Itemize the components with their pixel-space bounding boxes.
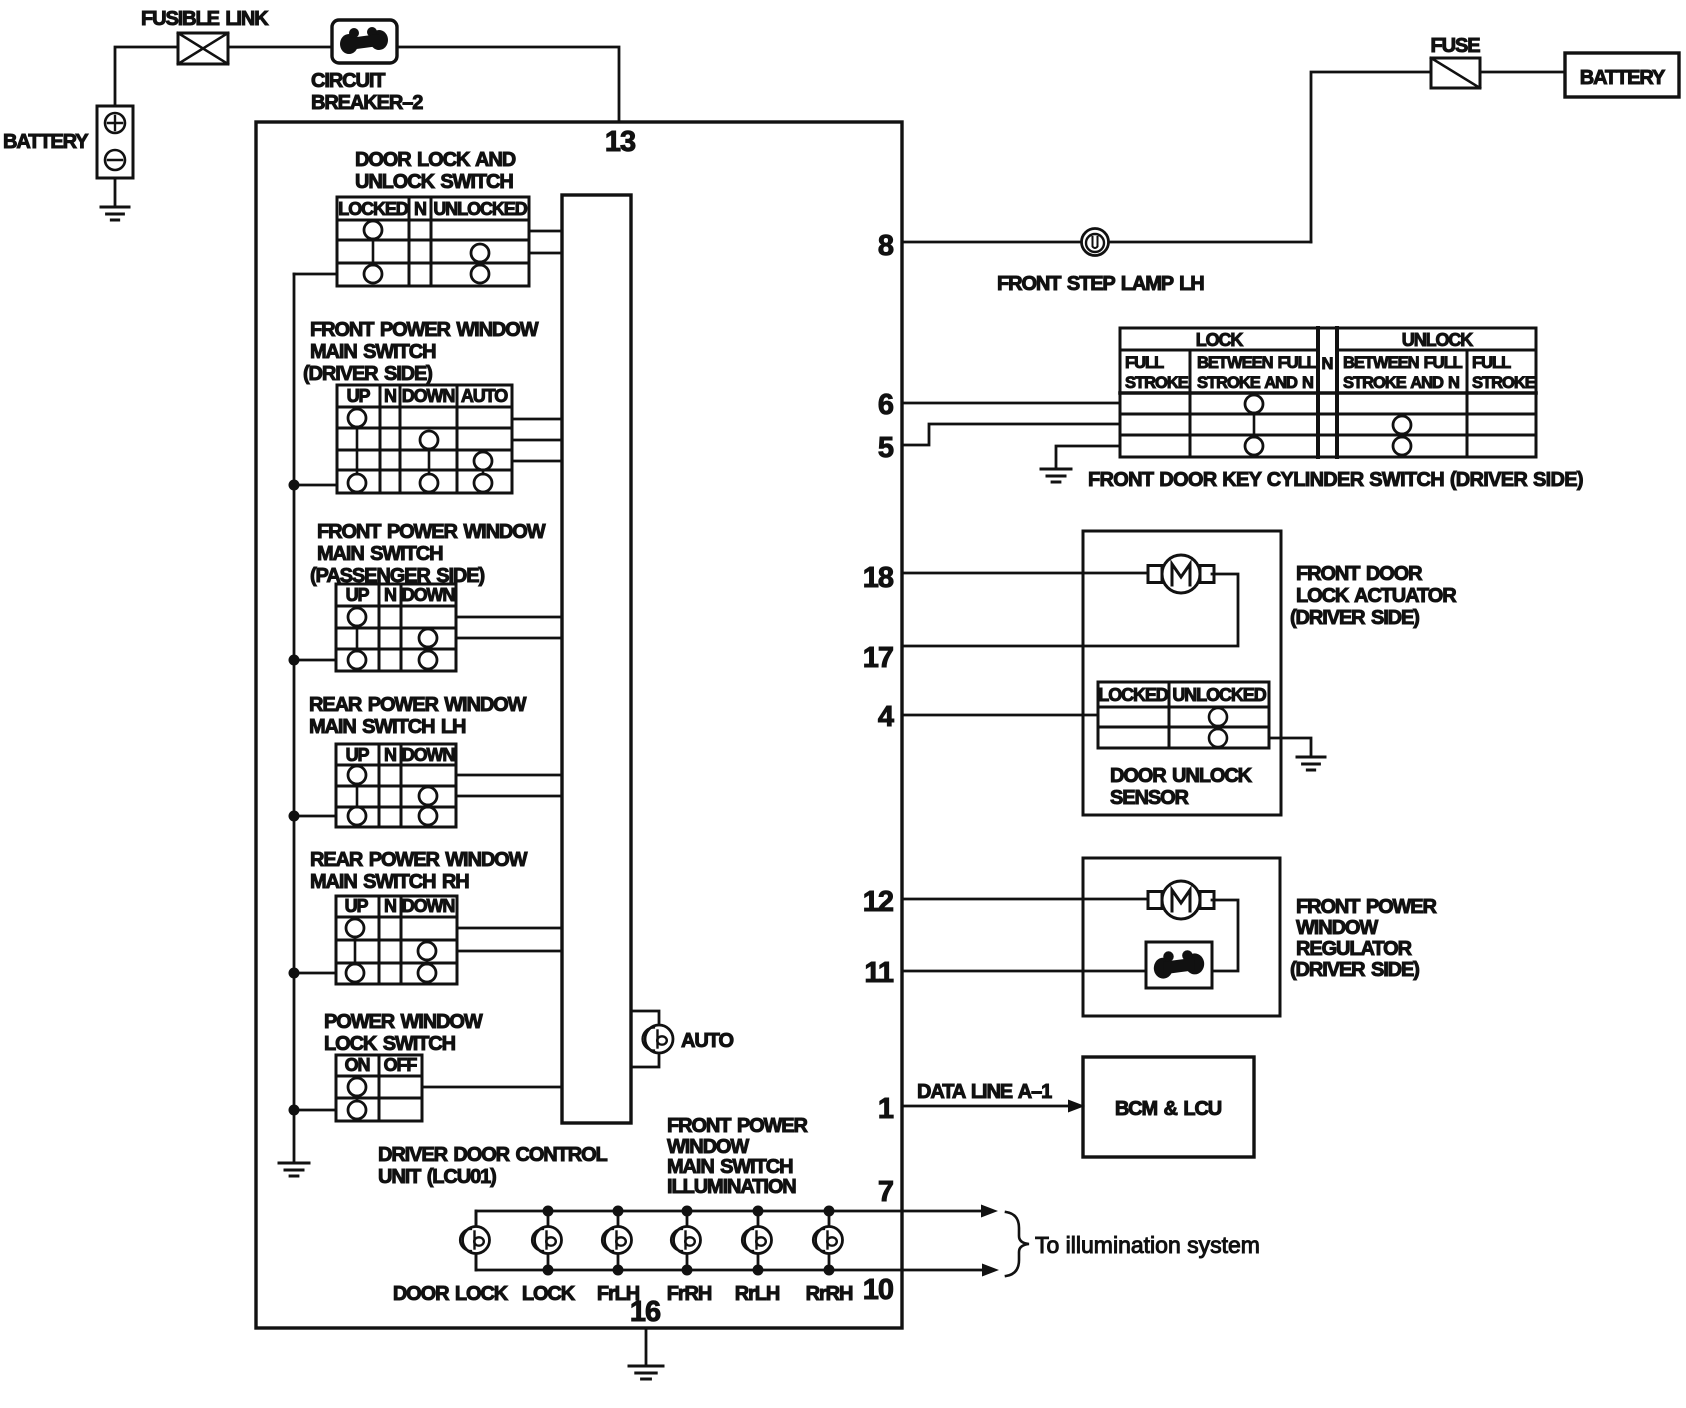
svg-text:12: 12 — [863, 886, 893, 918]
wire S1 row1 to bus — [529, 230, 562, 233]
wire actuator motor to pin 17 — [902, 574, 1238, 646]
svg-text:7: 7 — [878, 1176, 893, 1208]
svg-text:REAR POWER WINDOW: REAR POWER WINDOW — [310, 849, 528, 871]
ground (door unlock sensor) — [1297, 756, 1325, 759]
wire door unlock sensor to ground — [1269, 738, 1311, 756]
svg-text:LOCK ACTUATOR: LOCK ACTUATOR — [1296, 585, 1457, 607]
svg-text:FRONT STEP LAMP LH: FRONT STEP LAMP LH — [997, 273, 1204, 295]
svg-text:FULL: FULL — [1125, 354, 1164, 372]
wire pin 5 to key cylinder switch — [902, 424, 1120, 445]
svg-text:UNLOCKED: UNLOCKED — [433, 199, 527, 219]
arrow to illumination system (bottom) — [982, 1264, 999, 1277]
svg-text:(DRIVER SIDE): (DRIVER SIDE) — [1290, 959, 1419, 981]
svg-text:UNIT (LCU01): UNIT (LCU01) — [378, 1166, 496, 1188]
svg-text:STROKE AND N: STROKE AND N — [1197, 374, 1313, 392]
svg-text:UP: UP — [345, 896, 369, 916]
svg-text:CIRCUIT: CIRCUIT — [311, 70, 385, 92]
wire pin 16 to ground — [645, 1328, 648, 1365]
svg-text:17: 17 — [863, 642, 893, 674]
circuit breaker CB-2 — [332, 20, 397, 63]
ground (pin 16) — [629, 1365, 663, 1368]
fusible link — [178, 33, 228, 64]
svg-text:DOOR UNLOCK: DOOR UNLOCK — [1110, 765, 1253, 787]
wire S4 row1 to bus — [456, 774, 562, 777]
svg-text:To illumination system: To illumination system — [1035, 1232, 1260, 1258]
svg-text:REGULATOR: REGULATOR — [1296, 938, 1413, 960]
wire pin 18 to actuator motor — [902, 572, 1150, 575]
svg-text:LOCK: LOCK — [1196, 330, 1244, 350]
rear power window main switch RH S5 — [336, 896, 457, 984]
illumination lamp DOOR LOCK — [475, 1211, 478, 1226]
illumination lamp RrRH — [828, 1211, 831, 1226]
svg-text:(DRIVER SIDE): (DRIVER SIDE) — [1290, 607, 1419, 629]
svg-text:MAIN SWITCH: MAIN SWITCH — [667, 1156, 793, 1178]
svg-text:11: 11 — [864, 957, 894, 989]
svg-text:FUSIBLE LINK: FUSIBLE LINK — [141, 8, 269, 30]
junction S2 left rail — [289, 480, 300, 491]
svg-text:BETWEEN FULL: BETWEEN FULL — [1197, 354, 1317, 372]
svg-text:WINDOW: WINDOW — [667, 1136, 749, 1158]
svg-text:FRONT POWER: FRONT POWER — [667, 1115, 809, 1137]
svg-text:LOCKED: LOCKED — [338, 199, 409, 219]
wire S2 row2 to bus — [512, 439, 562, 442]
svg-text:FULL: FULL — [1472, 354, 1511, 372]
svg-text:5: 5 — [878, 432, 894, 464]
svg-text:BREAKER–2: BREAKER–2 — [311, 92, 423, 114]
front power window regulator box — [1083, 858, 1280, 1016]
door lock and unlock switch S1 — [337, 197, 529, 286]
front power window main switch passenger S3 — [336, 584, 456, 671]
junction S4 left rail — [289, 811, 300, 822]
driver door control unit LCU01 box — [256, 122, 902, 1328]
svg-text:MAIN SWITCH LH: MAIN SWITCH LH — [309, 716, 466, 738]
regulator circuit breaker — [1146, 942, 1212, 988]
junction S6 left rail — [289, 1105, 300, 1116]
wire bus to AUTO lamp — [631, 1011, 659, 1067]
front door key cylinder switch S7 — [1120, 328, 1536, 457]
svg-text:SENSOR: SENSOR — [1110, 787, 1190, 809]
wire S6 to left rail — [294, 1109, 336, 1112]
svg-text:LOCK: LOCK — [522, 1283, 576, 1305]
arrow data line A-1 — [1068, 1100, 1085, 1113]
wire S5 row2 to bus — [457, 950, 562, 953]
svg-text:DRIVER DOOR CONTROL: DRIVER DOOR CONTROL — [378, 1144, 608, 1166]
svg-text:BETWEEN FULL: BETWEEN FULL — [1343, 354, 1463, 372]
ground (left rail) — [279, 1162, 309, 1165]
door unlock sensor S8 — [1098, 682, 1269, 748]
front power window main switch driver S2 — [337, 385, 512, 493]
svg-text:ILLUMINATION: ILLUMINATION — [667, 1176, 796, 1198]
wire S2 row3 to bus — [512, 460, 562, 463]
wire S2 to left rail — [294, 484, 337, 487]
svg-text:FUSE: FUSE — [1431, 35, 1481, 57]
svg-text:UP: UP — [346, 585, 370, 605]
svg-text:REAR POWER WINDOW: REAR POWER WINDOW — [309, 694, 527, 716]
svg-text:FrRH: FrRH — [667, 1283, 712, 1305]
svg-text:UNLOCKED: UNLOCKED — [1172, 685, 1266, 705]
wire pin 11 to regulator breaker — [902, 970, 1146, 973]
svg-text:LOCKED: LOCKED — [1098, 685, 1169, 705]
brace to illumination system — [1006, 1212, 1029, 1276]
svg-text:UNLOCK: UNLOCK — [1402, 330, 1473, 350]
illumination lamp FrLH — [617, 1211, 620, 1226]
svg-text:FRONT POWER WINDOW: FRONT POWER WINDOW — [310, 319, 539, 341]
svg-text:WINDOW: WINDOW — [1296, 917, 1378, 939]
wire S5 to left rail — [294, 972, 336, 975]
wire pin 4 to door unlock sensor — [902, 714, 1098, 717]
power window lock switch S6 — [336, 1055, 422, 1121]
svg-text:(DRIVER SIDE): (DRIVER SIDE) — [303, 363, 432, 385]
svg-text:DATA LINE A–1: DATA LINE A–1 — [917, 1081, 1052, 1103]
svg-text:BATTERY: BATTERY — [3, 131, 89, 153]
svg-text:MAIN SWITCH: MAIN SWITCH — [317, 543, 443, 565]
wire S6 to bus — [422, 1086, 562, 1089]
wire fuse to front step lamp node — [1311, 72, 1431, 242]
svg-text:FRONT POWER WINDOW: FRONT POWER WINDOW — [317, 521, 546, 543]
wire pin 8 to front step lamp node — [902, 241, 1311, 244]
wire pin 6 to key cylinder switch — [902, 402, 1120, 405]
wire battery to fusible link — [115, 47, 178, 106]
svg-text:UP: UP — [346, 745, 370, 765]
left rail wire — [293, 274, 296, 1162]
fuse — [1431, 58, 1480, 88]
svg-text:DOWN: DOWN — [402, 386, 455, 406]
svg-text:AUTO: AUTO — [461, 386, 508, 406]
svg-text:DOWN: DOWN — [402, 585, 455, 605]
arrow to illumination system (top) — [981, 1205, 998, 1218]
svg-text:10: 10 — [863, 1274, 893, 1306]
svg-text:18: 18 — [863, 562, 894, 594]
wire S3 row2 to bus — [456, 637, 562, 640]
door lock actuator motor M1 — [1148, 566, 1162, 583]
svg-text:STROKE: STROKE — [1472, 374, 1536, 392]
internal bus of LCU — [562, 195, 631, 1123]
svg-text:FRONT DOOR KEY CYLINDER SWITCH: FRONT DOOR KEY CYLINDER SWITCH (DRIVER S… — [1088, 469, 1583, 491]
illumination lamp FrRH — [686, 1211, 689, 1226]
svg-text:FRONT DOOR: FRONT DOOR — [1296, 563, 1423, 585]
svg-text:BATTERY: BATTERY — [1580, 67, 1666, 89]
wire key cylinder to ground — [1056, 446, 1120, 468]
svg-text:1: 1 — [878, 1093, 894, 1125]
battery (left) — [97, 106, 133, 178]
illumination lamp LOCK — [547, 1211, 550, 1226]
svg-text:UP: UP — [347, 386, 371, 406]
svg-text:N: N — [1322, 355, 1333, 373]
front door lock actuator box — [1083, 531, 1281, 815]
BCM and LCU box — [1083, 1057, 1254, 1157]
wire pin 1 data line A-1 — [902, 1105, 1069, 1108]
svg-text:RrRH: RrRH — [806, 1283, 853, 1305]
svg-text:N: N — [384, 585, 396, 605]
wire S4 to left rail — [294, 815, 336, 818]
wire S4 row2 to bus — [456, 795, 562, 798]
svg-text:BCM & LCU: BCM & LCU — [1115, 1098, 1222, 1120]
svg-text:6: 6 — [878, 389, 894, 421]
wire regulator motor to breaker — [1212, 900, 1238, 971]
wire circuit breaker to LCU pin 13 — [397, 47, 619, 122]
svg-text:N: N — [414, 199, 426, 219]
window regulator motor M2 — [1148, 892, 1162, 909]
wire S3 row1 to bus — [456, 616, 562, 619]
svg-text:DOOR LOCK: DOOR LOCK — [393, 1283, 509, 1305]
wire S2 row1 to bus — [512, 418, 562, 421]
svg-text:LOCK SWITCH: LOCK SWITCH — [324, 1033, 456, 1055]
svg-text:AUTO: AUTO — [681, 1030, 733, 1052]
svg-text:13: 13 — [605, 126, 636, 158]
svg-text:DOWN: DOWN — [402, 896, 455, 916]
ground (battery left) — [114, 178, 117, 206]
svg-text:RrLH: RrLH — [735, 1283, 780, 1305]
svg-text:FRONT POWER: FRONT POWER — [1296, 896, 1438, 918]
wire pin 12 to regulator motor — [902, 898, 1150, 901]
svg-text:4: 4 — [878, 701, 894, 733]
svg-text:MAIN SWITCH: MAIN SWITCH — [310, 341, 436, 363]
svg-text:ON: ON — [345, 1055, 370, 1075]
svg-text:DOWN: DOWN — [402, 745, 455, 765]
rear power window main switch LH S4 — [336, 744, 456, 827]
wire fusible link to circuit breaker — [228, 46, 332, 49]
wire S3 to left rail — [294, 659, 336, 662]
illumination lamp RrLH — [757, 1211, 760, 1226]
svg-text:DOOR LOCK AND: DOOR LOCK AND — [355, 149, 516, 171]
wire S5 row1 to bus — [457, 927, 562, 930]
AUTO indicator lamp — [645, 1025, 673, 1053]
svg-text:N: N — [384, 745, 396, 765]
svg-text:POWER WINDOW: POWER WINDOW — [324, 1011, 483, 1033]
junction S5 left rail — [289, 968, 300, 979]
battery (right) — [1565, 53, 1679, 97]
svg-text:MAIN SWITCH RH: MAIN SWITCH RH — [310, 871, 469, 893]
illumination bottom bus wire 10 — [476, 1254, 982, 1270]
illumination top bus wire 7 — [476, 1211, 981, 1226]
wire S1 row2 to bus — [529, 252, 562, 255]
svg-text:STROKE: STROKE — [1125, 374, 1189, 392]
wire battery right to fuse — [1480, 71, 1565, 74]
ground (key cylinder switch) — [1041, 468, 1071, 471]
junction S3 left rail — [289, 655, 300, 666]
wire S1 to left rail — [294, 273, 337, 276]
svg-text:8: 8 — [878, 230, 894, 262]
svg-text:OFF: OFF — [384, 1055, 418, 1075]
svg-text:FrLH: FrLH — [597, 1283, 640, 1305]
svg-text:STROKE AND N: STROKE AND N — [1343, 374, 1459, 392]
svg-text:N: N — [384, 386, 396, 406]
svg-text:UNLOCK SWITCH: UNLOCK SWITCH — [355, 171, 513, 193]
svg-text:N: N — [384, 896, 396, 916]
front step lamp LH — [1082, 229, 1109, 256]
